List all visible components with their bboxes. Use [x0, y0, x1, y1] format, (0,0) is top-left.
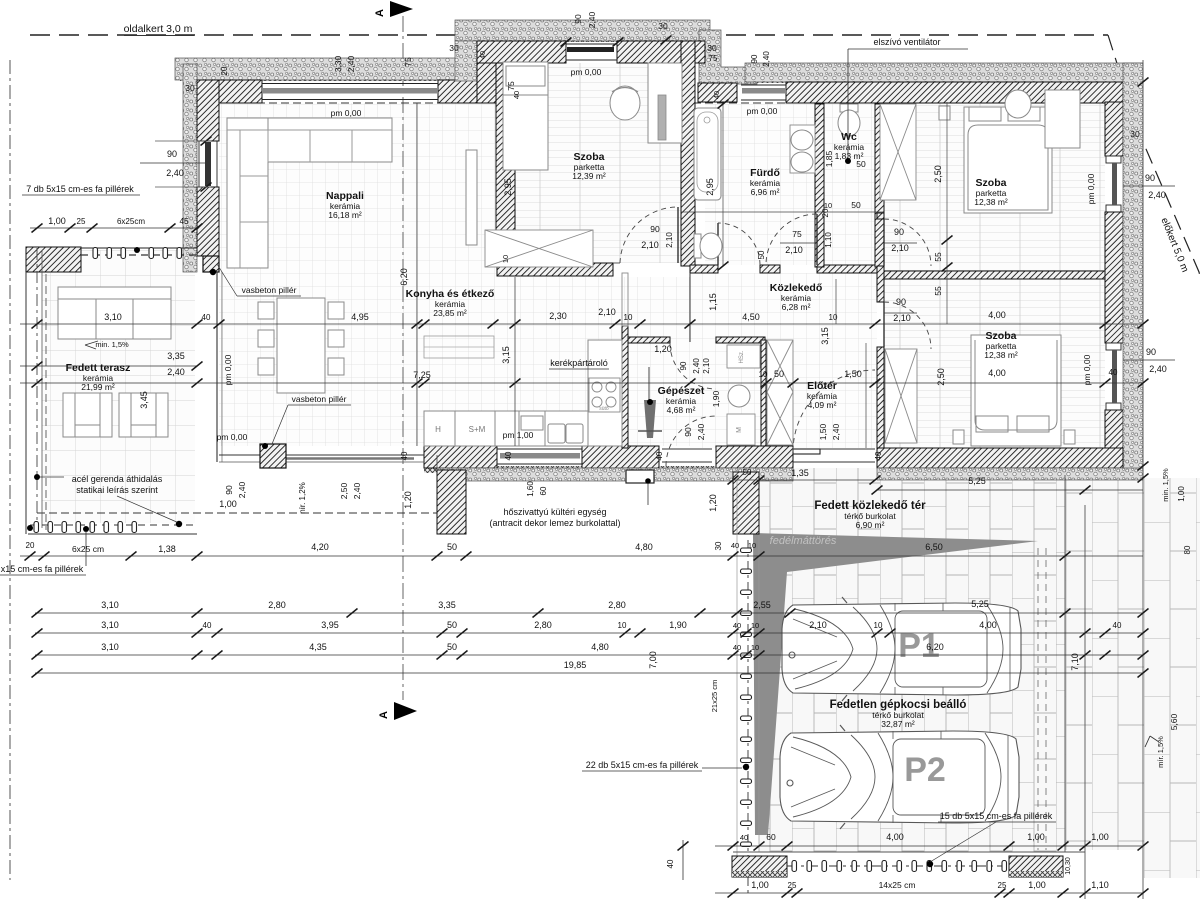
svg-text:pm 0,00: pm 0,00	[331, 108, 362, 118]
dim row B y=383	[20, 382, 1143, 384]
svg-text:10: 10	[501, 255, 510, 263]
svg-text:30: 30	[1130, 129, 1140, 139]
svg-text:1,10: 1,10	[824, 232, 833, 248]
svg-text:2,40: 2,40	[237, 481, 247, 498]
svg-text:90: 90	[1145, 173, 1155, 183]
washing machine	[728, 385, 750, 407]
svg-text:1,38: 1,38	[158, 544, 176, 554]
svg-text:10: 10	[748, 541, 756, 550]
svg-text:10: 10	[759, 370, 768, 379]
svg-text:1,00: 1,00	[751, 880, 769, 890]
sofa L-shaped living room	[227, 118, 392, 268]
svg-text:12,38 m²: 12,38 m²	[984, 350, 1018, 360]
svg-text:4,00: 4,00	[886, 832, 904, 842]
mech room interior door	[670, 343, 716, 389]
wardrobe X hall strip	[767, 340, 793, 445]
svg-text:10,30: 10,30	[1065, 857, 1072, 875]
pillar walkway stub	[733, 472, 759, 534]
svg-text:21x25 cm: 21x25 cm	[710, 680, 719, 713]
svg-text:40: 40	[740, 833, 748, 842]
svg-text:10: 10	[751, 621, 759, 630]
wall east lower	[1105, 410, 1123, 466]
dashed parking bay lines	[1037, 548, 1039, 850]
kitchen wall cabinets dashed	[424, 336, 494, 358]
left reference dashdot	[9, 60, 11, 880]
wedge dim 6,50	[757, 555, 1143, 557]
kitchen-hall opening line	[689, 273, 691, 342]
svg-text:2,55: 2,55	[753, 600, 771, 610]
svg-text:90: 90	[683, 427, 693, 437]
svg-text:statikai leírás szerint: statikai leírás szerint	[76, 485, 158, 495]
svg-text:16,18 m²: 16,18 m²	[328, 210, 362, 220]
svg-text:4,00: 4,00	[979, 620, 997, 630]
svg-text:32,87 m²: 32,87 m²	[881, 719, 915, 729]
svg-text:2,50: 2,50	[933, 165, 943, 183]
svg-text:2,10: 2,10	[598, 307, 616, 317]
svg-text:2,10: 2,10	[702, 358, 711, 374]
svg-text:45: 45	[180, 217, 189, 226]
wall east middle	[1105, 212, 1123, 343]
svg-text:30: 30	[185, 83, 195, 93]
footing block east	[1009, 856, 1063, 877]
bedroom3 parquet	[884, 279, 1105, 448]
svg-text:2,50: 2,50	[339, 482, 349, 499]
bedroom2 door	[883, 219, 885, 266]
roof overhang dashed top	[197, 102, 497, 104]
svg-text:P2: P2	[904, 751, 946, 789]
svg-text:4,80: 4,80	[635, 542, 653, 552]
terrace north pillar row	[81, 247, 197, 249]
bedroom1 parquet	[515, 63, 685, 263]
wall west upper	[197, 80, 219, 141]
svg-text:7 db 5x15 cm-es fa pillérek: 7 db 5x15 cm-es fa pillérek	[26, 184, 134, 194]
svg-text:90: 90	[650, 224, 660, 234]
svg-text:12,39 m²: 12,39 m²	[572, 171, 606, 181]
section arrow bottom	[394, 702, 417, 720]
svg-text:3,30: 3,30	[333, 55, 343, 72]
section arrow top	[390, 1, 413, 17]
svg-text:90: 90	[573, 14, 583, 24]
wall wc south	[817, 265, 884, 273]
svg-text:10: 10	[874, 621, 883, 630]
svg-text:5,25: 5,25	[971, 599, 989, 609]
svg-text:2,40: 2,40	[352, 482, 362, 499]
svg-text:pm 0,00: pm 0,00	[223, 354, 233, 385]
svg-text:vasbeton pillér: vasbeton pillér	[292, 394, 347, 404]
terrace west edge	[25, 272, 27, 534]
svg-text:25: 25	[77, 217, 86, 226]
HSz cabinet	[727, 345, 760, 368]
svg-text:4,20: 4,20	[311, 542, 329, 552]
wall strip A	[877, 213, 884, 219]
svg-text:hőszivattyú kültéri egység: hőszivattyú kültéri egység	[503, 507, 606, 517]
window W5 bedroom2 east	[1106, 156, 1121, 163]
svg-text:A: A	[378, 711, 390, 719]
svg-text:90: 90	[750, 54, 759, 63]
wall protrusion step left	[477, 63, 497, 103]
insulation south-left	[437, 468, 793, 481]
svg-text:2,50: 2,50	[936, 368, 946, 386]
footing block west	[732, 856, 787, 877]
concrete pillar west	[203, 256, 219, 272]
wc toilet	[840, 104, 858, 112]
parking pavement	[759, 468, 1065, 852]
svg-text:6,90 m²: 6,90 m²	[856, 520, 885, 530]
svg-text:75: 75	[792, 229, 802, 239]
svg-text:3,95: 3,95	[321, 620, 339, 630]
bike storage cabinet	[622, 273, 628, 326]
wall south utility	[716, 446, 793, 468]
wall south kitchen B	[582, 446, 659, 468]
svg-text:2,40: 2,40	[692, 358, 701, 374]
svg-text:25: 25	[998, 881, 1007, 890]
svg-text:6x25 cm: 6x25 cm	[72, 544, 104, 554]
svg-text:1,15: 1,15	[708, 293, 718, 311]
svg-text:acél gerenda áthidalás: acél gerenda áthidalás	[72, 474, 163, 484]
svg-text:2,10: 2,10	[785, 245, 803, 255]
svg-text:1,20: 1,20	[654, 344, 672, 354]
wall divider bedroom2/3	[884, 271, 1105, 279]
svg-text:75: 75	[709, 54, 718, 63]
wall mech north B	[716, 337, 765, 343]
svg-text:2,95: 2,95	[705, 178, 715, 196]
svg-text:7,10: 7,10	[1070, 653, 1080, 671]
svg-text:20: 20	[220, 66, 229, 75]
insulation north-right	[745, 63, 1143, 82]
svg-text:1,00: 1,00	[1027, 832, 1045, 842]
walkway dim row y=490	[877, 489, 1143, 491]
kitchen counter south	[424, 411, 588, 446]
svg-text:A: A	[374, 9, 386, 17]
svg-text:min. 1,5%: min. 1,5%	[1161, 468, 1170, 502]
interior vertical dim lines	[416, 103, 418, 446]
svg-text:40: 40	[1109, 368, 1118, 377]
dim 1,35 + 50 y=480	[733, 479, 875, 481]
terrace south edge + pillar row	[28, 533, 197, 535]
terrace top dim row y=228	[30, 227, 197, 229]
svg-text:3,15: 3,15	[501, 346, 511, 364]
svg-text:3,35: 3,35	[438, 600, 456, 610]
terrace wall block	[26, 247, 81, 272]
dim row B2 left y=366	[20, 365, 197, 367]
insulation protrusion top	[455, 20, 710, 41]
svg-text:1,60: 1,60	[526, 481, 535, 497]
bed bedroom3	[953, 335, 1075, 446]
bottom footing dims y=846	[715, 845, 1143, 847]
svg-text:2,80: 2,80	[608, 600, 626, 610]
svg-text:22 db 5x15 cm-es fa pillérek: 22 db 5x15 cm-es fa pillérek	[586, 760, 699, 770]
sliding glass door south living	[219, 454, 424, 456]
svg-text:23,85 m²: 23,85 m²	[433, 308, 467, 318]
svg-text:2,10: 2,10	[665, 232, 674, 248]
concrete pillar south (vasbeton)	[260, 444, 286, 468]
svg-text:40: 40	[712, 91, 721, 99]
right window dims	[1123, 185, 1175, 187]
insulation north-left	[175, 58, 460, 80]
window W2 bedroom1 north	[566, 43, 617, 45]
svg-text:15 db 5x15 cm-es fa pillérek: 15 db 5x15 cm-es fa pillérek	[940, 811, 1053, 821]
svg-text:90: 90	[167, 149, 177, 159]
bathroom twin sinks	[790, 125, 815, 173]
svg-text:5,60: 5,60	[1169, 713, 1179, 730]
walkway boundary lines right	[1064, 475, 1066, 852]
svg-text:1,00: 1,00	[1028, 880, 1046, 890]
svg-text:40: 40	[731, 541, 739, 550]
svg-text:10: 10	[824, 201, 832, 210]
car P2	[780, 725, 1019, 829]
svg-text:10: 10	[751, 643, 759, 652]
bottom-left dim row y=556	[20, 555, 757, 557]
wall wc west	[815, 104, 824, 267]
wall bath south B	[760, 265, 780, 273]
svg-text:50: 50	[774, 369, 784, 379]
svg-text:3,10: 3,10	[101, 600, 119, 610]
bedroom2 parquet	[884, 103, 1105, 271]
svg-text:80: 80	[1183, 545, 1192, 554]
window W3 bathroom north	[741, 84, 786, 86]
svg-text:pm 0,00: pm 0,00	[217, 432, 248, 442]
svg-text:1,00: 1,00	[1177, 486, 1186, 502]
svg-text:30: 30	[449, 43, 459, 53]
svg-text:1,35: 1,35	[791, 468, 809, 478]
svg-text:4,95: 4,95	[351, 312, 369, 322]
svg-text:6,28 m²: 6,28 m²	[782, 302, 811, 312]
svg-text:50: 50	[447, 620, 457, 630]
svg-text:55: 55	[933, 286, 943, 296]
living room glass wall to terrace	[216, 272, 218, 462]
svg-text:2,10: 2,10	[891, 243, 909, 253]
insulation protrusion right	[699, 30, 757, 84]
svg-text:6,20: 6,20	[399, 268, 409, 286]
svg-text:6,96 m²: 6,96 m²	[751, 187, 780, 197]
wardrobe X bedroom2	[880, 104, 916, 200]
pillar column vertical (21x25cm)	[747, 540, 749, 893]
dining table	[258, 298, 344, 393]
svg-text:1,20: 1,20	[708, 494, 718, 512]
svg-text:1,90: 1,90	[669, 620, 687, 630]
svg-text:fedélmáttörés: fedélmáttörés	[770, 535, 837, 547]
svg-text:sütő: sütő	[599, 406, 609, 412]
svg-text:75: 75	[403, 57, 413, 67]
svg-text:75: 75	[506, 81, 516, 91]
bath top dim line	[681, 211, 884, 213]
kitchen island counter with hob	[588, 340, 622, 446]
svg-text:4,50: 4,50	[742, 312, 760, 322]
svg-text:2,40: 2,40	[587, 11, 597, 28]
dim row A y=324	[20, 323, 1143, 325]
svg-text:3,10: 3,10	[101, 620, 119, 630]
property line elokert diagonal	[1108, 35, 1200, 276]
svg-text:50: 50	[757, 250, 766, 259]
wall south bedroom3	[877, 448, 1123, 468]
wall mech east	[761, 340, 766, 446]
bedroom3 door	[883, 302, 885, 347]
wall bedroom1 east / bath west	[681, 41, 695, 266]
window W4 living west	[198, 141, 200, 187]
svg-text:2,95: 2,95	[503, 178, 513, 196]
wall north-left B	[438, 80, 480, 103]
left window dim	[140, 162, 206, 164]
svg-text:30: 30	[707, 43, 717, 53]
svg-text:50: 50	[743, 468, 752, 477]
svg-text:90: 90	[224, 485, 234, 495]
svg-text:55: 55	[933, 252, 943, 262]
nappali tiles	[219, 103, 496, 446]
svg-text:2,40: 2,40	[696, 423, 706, 440]
svg-text:5,25: 5,25	[968, 476, 986, 486]
svg-text:oldalkert 3,0 m: oldalkert 3,0 m	[124, 23, 193, 35]
svg-text:nír. 1,2%: nír. 1,2%	[298, 482, 307, 514]
window W7 kitchen south	[497, 448, 582, 450]
svg-text:vasbeton pillér: vasbeton pillér	[242, 285, 297, 295]
bathroom tiles	[705, 104, 815, 265]
bed bedroom2	[939, 106, 1073, 213]
svg-text:4,80: 4,80	[591, 642, 609, 652]
mech room exterior door	[662, 448, 712, 450]
svg-text:2,40: 2,40	[166, 168, 184, 178]
svg-text:1,00: 1,00	[219, 499, 237, 509]
wall bedroom1 south A	[497, 263, 613, 276]
svg-text:40: 40	[666, 859, 675, 868]
svg-text:6,50: 6,50	[925, 542, 943, 552]
svg-text:10: 10	[618, 621, 627, 630]
long dim rows bottom	[35, 612, 1143, 614]
window W1 living room north	[262, 83, 438, 85]
svg-text:2,40: 2,40	[831, 423, 841, 440]
bathroom door	[717, 223, 719, 265]
tv board living room	[466, 150, 477, 245]
wardrobe X bedroom1	[485, 230, 593, 267]
wall east upper	[1105, 102, 1123, 156]
svg-text:3,10: 3,10	[104, 312, 122, 322]
svg-text:30: 30	[658, 21, 668, 31]
wall at bath window	[698, 83, 737, 102]
svg-text:4,09 m²: 4,09 m²	[808, 400, 837, 410]
svg-text:50: 50	[851, 200, 861, 210]
window W6 bedroom3 east	[1106, 343, 1121, 350]
svg-text:6,20: 6,20	[926, 642, 944, 652]
svg-text:1,85: 1,85	[824, 150, 834, 167]
wall strip C	[877, 347, 884, 448]
bedroom1 door	[677, 207, 679, 263]
svg-text:kerékpártároló: kerékpártároló	[550, 358, 608, 368]
svg-text:2,40: 2,40	[346, 55, 356, 72]
hallway tiles	[690, 273, 877, 448]
svg-text:60: 60	[766, 832, 776, 842]
svg-text:1,00: 1,00	[48, 216, 66, 226]
heat pump outdoor unit	[626, 470, 654, 483]
svg-text:10: 10	[624, 313, 633, 322]
svg-text:min. 1,5%: min. 1,5%	[95, 340, 129, 349]
insulation east	[1123, 63, 1143, 475]
wall strip B	[877, 266, 884, 302]
svg-text:pm 0,00: pm 0,00	[1082, 354, 1092, 385]
svg-text:60: 60	[539, 486, 548, 495]
section line A-A	[402, 16, 404, 700]
svg-text:40: 40	[512, 91, 521, 99]
svg-text:S+M: S+M	[469, 425, 486, 434]
terrace armchair 2	[119, 393, 168, 437]
wall mech west	[622, 326, 628, 448]
roof opening grey wedge (fedelmattores)	[753, 533, 1038, 835]
roof overhang dashed left/south	[37, 512, 437, 514]
wall north-right	[786, 82, 1123, 103]
svg-text:40: 40	[1113, 621, 1122, 630]
bike rack symbol	[648, 367, 650, 427]
entry door	[793, 448, 875, 450]
svg-text:2,40: 2,40	[1148, 190, 1166, 200]
insulation edge bands	[180, 74, 460, 81]
svg-text:50: 50	[447, 542, 457, 552]
wc door	[816, 214, 818, 265]
terrace sofa	[58, 287, 171, 339]
svg-text:2,40: 2,40	[1149, 364, 1167, 374]
svg-text:4,00: 4,00	[988, 310, 1006, 320]
car P1	[782, 597, 1021, 701]
terrace armchair 1	[63, 393, 112, 437]
insulation protrusion left	[455, 41, 477, 81]
svg-text:40: 40	[733, 621, 741, 630]
insulation south-right	[877, 468, 1143, 480]
svg-text:30: 30	[714, 541, 723, 550]
svg-text:pm 0,00: pm 0,00	[571, 67, 602, 77]
wall bath south A	[690, 265, 718, 273]
wall north-left A	[197, 80, 262, 103]
svg-text:12,38 m²: 12,38 m²	[974, 197, 1008, 207]
wall south kitchen A	[424, 446, 497, 468]
pillar column strip edges	[736, 468, 738, 858]
svg-text:1,00: 1,00	[1091, 832, 1109, 842]
svg-text:pm 1,00: pm 1,00	[503, 430, 534, 440]
wall protrusion top A	[477, 41, 566, 63]
svg-text:7,00: 7,00	[648, 651, 658, 669]
svg-text:1,90: 1,90	[711, 390, 721, 407]
svg-text:19,85: 19,85	[564, 660, 587, 670]
svg-text:90: 90	[1146, 347, 1156, 357]
pillar row bottom (14x25cm)	[787, 865, 1009, 867]
svg-text:HSz.: HSz.	[739, 350, 745, 363]
svg-text:14x25 cm: 14x25 cm	[879, 880, 916, 890]
svg-text:3,35: 3,35	[167, 351, 185, 361]
svg-text:x15 cm-es fa pillérek: x15 cm-es fa pillérek	[1, 564, 84, 574]
svg-text:2,10: 2,10	[641, 240, 659, 250]
svg-text:2,10: 2,10	[893, 313, 911, 323]
svg-text:20: 20	[26, 541, 35, 550]
wall protrusion top B	[617, 41, 705, 63]
svg-text:1,20: 1,20	[403, 491, 413, 509]
svg-text:4,35: 4,35	[309, 642, 327, 652]
svg-text:40: 40	[874, 451, 883, 460]
svg-text:40: 40	[504, 451, 513, 460]
wall bedroom1 west	[496, 63, 515, 263]
wall mech north A	[628, 337, 670, 343]
svg-text:pm 0,00: pm 0,00	[747, 106, 778, 116]
property line oldalkert	[30, 34, 1108, 36]
bathtub	[694, 108, 721, 200]
svg-text:90: 90	[679, 361, 688, 370]
svg-text:21,99 m²: 21,99 m²	[81, 382, 115, 392]
svg-text:10: 10	[829, 313, 838, 322]
svg-text:1,50: 1,50	[818, 423, 828, 440]
svg-text:1,50: 1,50	[844, 369, 862, 379]
svg-text:2,80: 2,80	[268, 600, 286, 610]
svg-text:2,30: 2,30	[549, 311, 567, 321]
svg-text:1,10: 1,10	[1091, 880, 1109, 890]
svg-text:6x25cm: 6x25cm	[117, 217, 145, 226]
svg-text:2,80: 2,80	[534, 620, 552, 630]
svg-text:90: 90	[894, 227, 904, 237]
svg-text:elszívó ventilátor: elszívó ventilátor	[873, 37, 940, 47]
